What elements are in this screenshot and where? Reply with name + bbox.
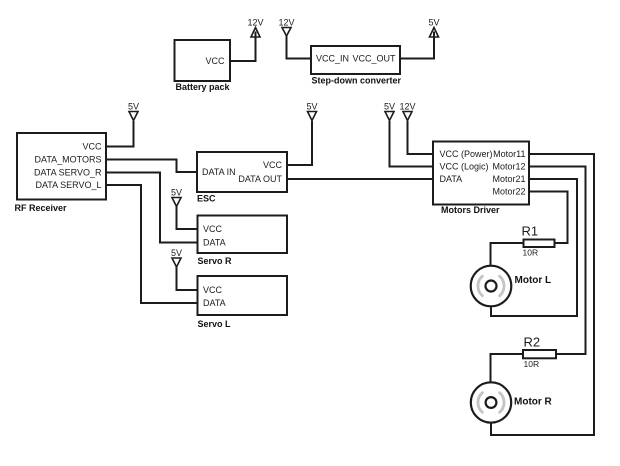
wire Motor22 to R1 right (529, 192, 568, 244)
svg-text:Motor21: Motor21 (492, 174, 525, 184)
svg-text:DATA: DATA (203, 238, 226, 248)
svg-text:RF Receiver: RF Receiver (15, 203, 68, 213)
power symbol 5V triangle (Servo L) (172, 258, 181, 267)
svg-text:DATA_MOTORS: DATA_MOTORS (34, 155, 101, 165)
svg-text:5V: 5V (384, 102, 395, 112)
wire 5V to Servo R VCC (177, 207, 198, 230)
svg-text:Servo L: Servo L (198, 319, 232, 329)
resistor R2 body (523, 350, 556, 358)
svg-text:5V: 5V (428, 18, 439, 28)
svg-text:DATA: DATA (203, 298, 226, 308)
svg-text:5V: 5V (306, 102, 317, 112)
svg-text:Motor12: Motor12 (492, 162, 525, 172)
wire 5V to Motors Driver VCC (Logic) (390, 121, 434, 167)
svg-text:VCC: VCC (203, 285, 223, 295)
svg-text:DATA: DATA (440, 174, 463, 184)
svg-text:10R: 10R (524, 359, 540, 369)
svg-text:VCC: VCC (205, 56, 225, 66)
svg-text:Motor22: Motor22 (492, 187, 525, 197)
wire ESC VCC to 5V (287, 121, 312, 165)
svg-text:VCC: VCC (82, 142, 102, 152)
svg-text:5V: 5V (171, 188, 182, 198)
wire ESC DATA OUT to Motors Driver DATA (287, 178, 433, 180)
svg-text:ESC: ESC (197, 194, 216, 204)
motor M1 Motor L symbol (471, 266, 512, 307)
svg-text:DATA OUT: DATA OUT (238, 174, 282, 184)
svg-text:5V: 5V (171, 248, 182, 258)
power symbol 5V arrow (step-down output) (430, 28, 439, 38)
svg-text:DATA SERVO_R: DATA SERVO_R (34, 168, 102, 178)
step-down converter box (311, 46, 400, 74)
svg-text:Motors Driver: Motors Driver (441, 205, 500, 215)
wire DATA SERVO_L to Servo L DATA (106, 185, 198, 303)
wire DATA_MOTORS to ESC DATA IN (106, 160, 197, 173)
svg-text:VCC: VCC (203, 224, 223, 234)
wire 12V rail to step-down VCC_IN (287, 36, 312, 59)
svg-text:Battery pack: Battery pack (176, 82, 231, 92)
battery pack box (175, 40, 231, 81)
svg-text:12V: 12V (278, 18, 294, 28)
wire RF VCC to 5V (106, 121, 134, 147)
wire R2 left to Motor R top (491, 354, 524, 382)
svg-text:12V: 12V (247, 18, 263, 28)
RF Receiver box (17, 133, 106, 200)
svg-text:R2: R2 (524, 335, 541, 350)
wire DATA SERVO_R to Servo R DATA (106, 173, 198, 243)
svg-text:DATA IN: DATA IN (202, 167, 236, 177)
svg-text:5V: 5V (128, 102, 139, 112)
power symbol 5V triangle (ESC) (308, 112, 317, 121)
power symbol 5V triangle (Servo R) (172, 198, 181, 207)
Servo R box (198, 216, 288, 254)
wire R1 left to Motor L top (491, 243, 524, 266)
svg-text:12V: 12V (399, 102, 415, 112)
svg-text:R1: R1 (522, 224, 539, 239)
ESC box (197, 152, 287, 192)
power symbol 12V input triangle (step-down) (282, 28, 291, 37)
wire Motor21 to Motor L bottom (491, 179, 577, 316)
power symbol 5V triangle (RF Receiver) (129, 112, 138, 121)
svg-text:Step-down converter: Step-down converter (312, 76, 402, 86)
svg-text:Motor L: Motor L (515, 275, 552, 286)
svg-text:Motor R: Motor R (514, 397, 553, 408)
svg-text:VCC: VCC (263, 160, 283, 170)
power symbol 12V triangle (Motors Driver power) (403, 112, 412, 121)
motor M2 Motor R symbol (471, 382, 511, 422)
wire step-down VCC_OUT to 5V rail (400, 32, 434, 59)
svg-text:VCC_IN: VCC_IN (316, 54, 349, 64)
svg-text:VCC_OUT: VCC_OUT (352, 54, 396, 64)
Motors Driver box (433, 142, 529, 205)
svg-text:VCC (Power): VCC (Power) (440, 149, 493, 159)
resistor R1 body (524, 240, 555, 248)
power symbol 12V arrow (battery output) (251, 28, 260, 38)
wire battery VCC to 12V rail (230, 32, 256, 62)
svg-text:Servo R: Servo R (198, 256, 233, 266)
wire 5V to Servo L VCC (177, 267, 198, 290)
svg-text:Motor11: Motor11 (493, 149, 525, 159)
svg-text:VCC (Logic): VCC (Logic) (440, 162, 489, 172)
wire Motor11 to Motor R bottom (491, 154, 594, 435)
Servo L box (198, 276, 288, 315)
wire 12V to Motors Driver VCC (Power) (408, 121, 434, 154)
power symbol 5V triangle (Motors Driver logic) (385, 112, 394, 121)
wire Motor12 to R2 right (529, 167, 586, 355)
svg-text:DATA SERVO_L: DATA SERVO_L (35, 180, 101, 190)
svg-text:10R: 10R (523, 248, 539, 258)
